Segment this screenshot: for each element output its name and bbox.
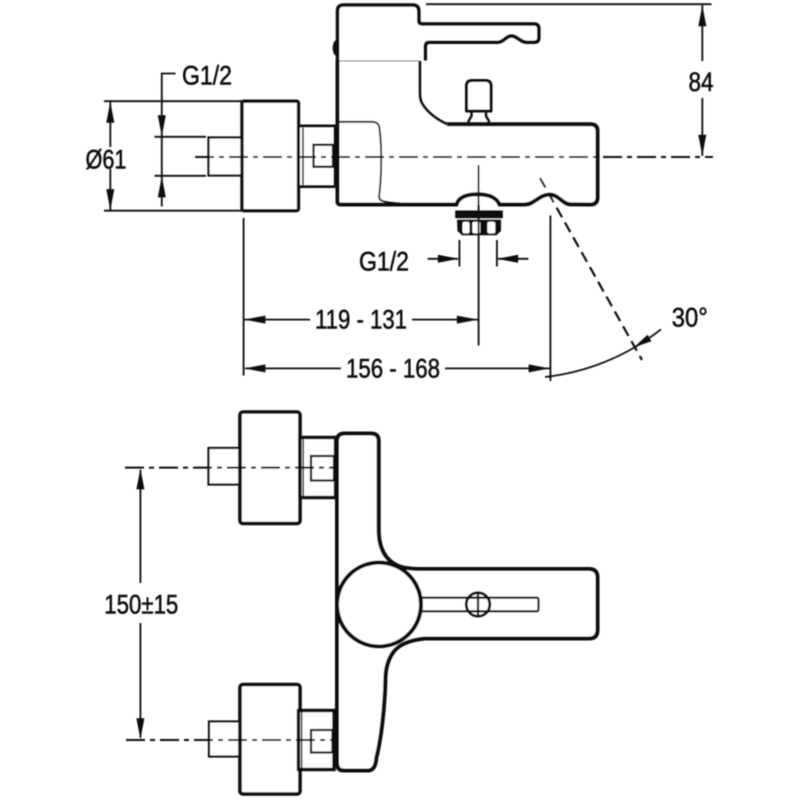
G1/2 nipple extension line top — [155, 136, 207, 138]
dimension 150±15 arrow up — [136, 468, 144, 489]
dimension 119-131 arrow right — [457, 316, 478, 324]
temperature stop button on handle (side view) — [333, 41, 339, 56]
svg-text:G1/2: G1/2 — [182, 60, 232, 90]
dimension 84 extension line — [426, 3, 712, 5]
mixer body outline (front view) — [337, 434, 598, 771]
dimension G1/2 (wall nipple) leader line — [162, 74, 176, 207]
svg-text:119 - 131: 119 - 131 — [315, 304, 407, 334]
lever handle fill (side view) — [338, 5, 539, 61]
lever screw circle (front view) — [466, 593, 490, 617]
top union hex nut (front view) — [300, 438, 336, 498]
G1/2 aerator arrow left-pointing — [497, 255, 518, 263]
dimension 150±15 arrow down — [136, 718, 144, 739]
spout aerator knurled nut (side view) — [457, 220, 501, 236]
G1/2 nipple arrow down — [158, 115, 166, 136]
svg-text:Ø61: Ø61 — [86, 144, 127, 174]
nut slot 3 — [487, 222, 495, 234]
30° arc arrowhead — [634, 335, 651, 348]
dimension 84 line — [701, 5, 703, 61]
wall escutcheon flange Ø61 (side view) — [242, 101, 299, 211]
lever screw slot — [477, 592, 479, 618]
svg-text:84: 84 — [689, 67, 714, 97]
nut slot 1 — [463, 222, 470, 234]
extension line at spout tip — [549, 216, 551, 382]
dimension 156-168 arrow left — [244, 364, 265, 372]
lever handle outline (side view) — [338, 5, 539, 61]
bottom inlet centerline (front view) — [126, 739, 335, 741]
body neck below handle (side view) — [420, 61, 447, 125]
cartridge joint line (side view) — [339, 60, 419, 62]
svg-text:G1/2: G1/2 — [359, 246, 409, 276]
dimension G1/2 (aerator) arrow line right — [498, 258, 528, 260]
svg-text:156 - 168: 156 - 168 — [346, 353, 440, 383]
top wall nipple (front view) — [209, 448, 241, 485]
bottom wall flange (front view) — [240, 685, 300, 795]
joystick knob circle (front view) — [337, 563, 421, 647]
body rear-section contour line (side view) — [339, 122, 414, 204]
30° angle arc — [545, 329, 661, 377]
bottom wall nipple (front view) — [209, 722, 240, 757]
centerline of body axis (side view) — [195, 156, 713, 158]
mixer body outline (side view) — [338, 61, 598, 205]
dimension Ø61 line — [109, 101, 111, 147]
top wall flange (front view) — [240, 412, 300, 524]
G1/2 aerator extension line right — [496, 240, 498, 267]
dimension 119-131 line — [245, 319, 311, 321]
dimension G1/2 (aerator) arrow line left — [428, 258, 458, 260]
extension line from flange face (shared) — [243, 218, 245, 376]
dimension 156-168 arrow right — [529, 364, 550, 372]
dimension 84 arrow down — [698, 135, 706, 156]
bottom union hex nut (front view) — [299, 711, 335, 770]
dimension 156-168 line — [245, 367, 341, 369]
shower hose outlet stub (side view) — [467, 81, 492, 124]
top inlet centerline (front view) — [125, 467, 335, 469]
G1/2 nipple extension line bottom — [155, 175, 207, 177]
G1/2 nipple arrow up — [158, 176, 166, 197]
dimension Ø61 arrow up — [106, 102, 114, 123]
dimension 119-131 arrow left — [244, 316, 265, 324]
union hex nut (side view) — [299, 126, 336, 187]
svg-text:30°: 30° — [672, 302, 708, 332]
lever handle bar (front view) — [415, 598, 539, 612]
dimension Ø61 extension line bottom — [104, 210, 242, 212]
G1/2 aerator extension line left — [458, 240, 460, 267]
svg-text:150±15: 150±15 — [104, 589, 178, 619]
mixer body fill (side view) — [338, 61, 598, 205]
G1/2 aerator arrow right-pointing — [438, 255, 459, 263]
wall nipple G1/2 (side view) — [209, 138, 243, 176]
spout 30° tilt dashed line — [540, 178, 642, 360]
dimension Ø61 arrow down — [106, 189, 114, 210]
spout aerator collar band (side view) — [455, 211, 503, 219]
dimension Ø61 extension line top — [104, 100, 242, 102]
nut slot 2 — [472, 222, 480, 234]
dimension 150±15 line — [139, 470, 141, 583]
dimension 84 arrow up — [698, 5, 706, 26]
extension line from aerator axis — [478, 165, 480, 346]
